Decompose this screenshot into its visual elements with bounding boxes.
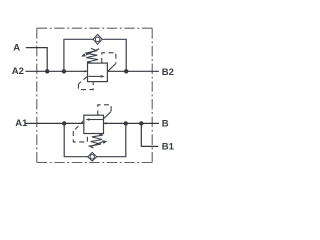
wire port A [26, 48, 47, 72]
enclosure border (dash-dot) [37, 28, 152, 162]
RV2 pilot line lower-left (dashed) [74, 121, 84, 131]
RV1 pilot line lower-left (dashed) [79, 77, 87, 84]
junction A/A2 [45, 69, 49, 73]
RV1 pilot line upper-right (dashed) [102, 53, 116, 63]
wire B line [104, 122, 159, 124]
RV2 inlet arrowhead [103, 122, 106, 124]
spring RV2 (adjustable) [89, 134, 103, 148]
junction A2 loop [62, 69, 66, 73]
svg-text:B: B [162, 118, 169, 129]
svg-text:A2: A2 [12, 66, 24, 77]
relief valve RV2 body [84, 115, 104, 133]
RV1 inlet arrowhead [84, 70, 87, 72]
svg-text:A: A [13, 42, 20, 53]
check valve upper (diamond + ball) [93, 34, 102, 44]
RV2 adjust arrow [90, 142, 104, 147]
svg-text:B1: B1 [162, 141, 175, 152]
RV2 internal flow arrow [89, 119, 103, 121]
wire upper bypass loop left [64, 39, 93, 71]
RV1 adjust arrow [86, 49, 99, 55]
junction A1 loop [62, 121, 66, 125]
RV1 internal flow arrow [88, 75, 101, 77]
spring RV1 (adjustable) [85, 48, 98, 63]
wire B1 branch [141, 123, 158, 146]
check valve lower (diamond + ball) [88, 152, 97, 161]
wire A1 line [26, 122, 84, 124]
wire upper bypass loop right [102, 39, 126, 71]
RV2 pilot line upper-right (dashed) [98, 105, 111, 116]
relief valve RV1 body [88, 63, 108, 82]
junction B loop [124, 121, 128, 125]
wire lower bypass loop left [64, 123, 88, 156]
junction B/B1 [139, 121, 143, 125]
wire B2 line [108, 70, 159, 72]
wire lower bypass loop right [97, 123, 126, 156]
wire A2 line [26, 70, 88, 72]
svg-text:B2: B2 [162, 67, 174, 78]
junction B2 loop [124, 69, 128, 73]
